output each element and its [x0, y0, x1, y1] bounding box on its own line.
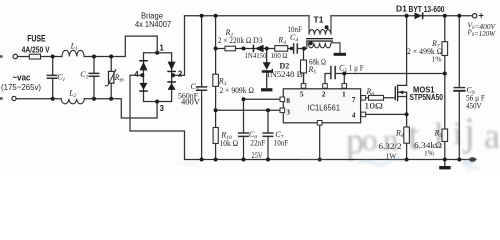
svg-text:2: 2	[178, 70, 183, 79]
capacitor C2	[89, 57, 98, 99]
wire: pin 7 gate row	[366, 97, 396, 99]
svg-text:C2: C2	[80, 70, 88, 81]
pin squares of U1	[280, 84, 366, 126]
resistor R6	[369, 95, 384, 100]
svg-text:j: j	[462, 109, 475, 154]
svg-text:C4: C4	[290, 33, 298, 44]
svg-text:R5: R5	[308, 65, 317, 76]
feedback branch R7/R9	[444, 16, 446, 160]
svg-text:1 μ F: 1 μ F	[349, 64, 364, 73]
transformer T1 primary winding	[309, 16, 331, 35]
terminal: +Vo output	[472, 14, 476, 18]
terminal: AC live input	[13, 54, 17, 58]
watermark	[176, 109, 500, 170]
wire: ground rail	[185, 159, 477, 161]
resistor R5	[301, 60, 307, 73]
wire: bridge node 4 to ground rail	[130, 75, 185, 159]
svg-text:4: 4	[352, 110, 356, 119]
svg-text:2 × 220k Ω: 2 × 220k Ω	[218, 36, 252, 45]
phase dot T1 secondary	[309, 41, 313, 45]
svg-text:n: n	[383, 122, 399, 157]
transformer T1 secondary winding	[304, 43, 340, 53]
wire: pin 3 row to R10/C7	[216, 110, 280, 133]
svg-text:2 × 909k Ω: 2 × 909k Ω	[220, 86, 255, 95]
rail end blob	[469, 157, 476, 162]
fuse FUSE 4A/250V	[29, 54, 40, 59]
zener diode D2 1N5248B	[262, 49, 273, 89]
resistor R9	[442, 129, 448, 142]
varistor Rth	[105, 57, 116, 99]
svg-text:C5: C5	[339, 64, 347, 75]
svg-text:1: 1	[342, 90, 346, 99]
wire: AC bottom line from terminal to bridge node 3	[16, 99, 157, 118]
svg-text:25V: 25V	[252, 151, 263, 160]
wire: pin 2 / pin 1 compensation row	[304, 73, 445, 84]
svg-text:Rth: Rth	[114, 73, 124, 84]
svg-text:P0=120W: P0=120W	[467, 28, 496, 39]
svg-text:4: 4	[134, 70, 139, 79]
svg-text:7: 7	[352, 95, 356, 104]
capacitor C7	[263, 133, 273, 160]
svg-text:D3: D3	[253, 36, 263, 45]
svg-text:t: t	[408, 113, 419, 158]
svg-text:5: 5	[300, 90, 304, 99]
svg-text:l: l	[434, 117, 443, 154]
capacitor C5	[331, 67, 335, 79]
svg-text:4A/250 V: 4A/250 V	[22, 44, 50, 54]
svg-text:L2: L2	[68, 88, 76, 99]
wire: pin 8 row to C6	[244, 99, 281, 133]
ground (T1 secondary)	[334, 53, 346, 56]
wire stubs at left image edge	[0, 55, 3, 100]
bridge rectifier Briage 4x1N4007	[139, 53, 176, 102]
svg-text:10k Ω: 10k Ω	[220, 139, 239, 148]
capacitor C6	[239, 133, 249, 160]
svg-text:1%: 1%	[424, 148, 434, 157]
transistor MOS1 STP5NA50	[395, 85, 406, 100]
IC U1 L6561 box	[283, 89, 360, 123]
svg-text:IC1L6561: IC1L6561	[308, 103, 341, 113]
svg-text:+: +	[479, 11, 484, 21]
diode D1 BYT13-600	[415, 12, 424, 19]
svg-text:1N4150: 1N4150	[245, 51, 267, 60]
svg-text:2: 2	[322, 90, 326, 99]
svg-text:C1: C1	[57, 73, 65, 84]
svg-text:8: 8	[286, 96, 290, 105]
capacitor C1	[47, 57, 56, 99]
svg-text:(175~265v): (175~265v)	[1, 82, 41, 92]
phase dot T1 primary	[325, 25, 329, 29]
svg-text:1: 1	[159, 44, 164, 53]
svg-text:T1: T1	[314, 15, 324, 25]
svg-text:~vac: ~vac	[13, 73, 31, 83]
wire: DC top rail	[185, 15, 473, 17]
wire: bridge node 2 to DC top rail	[172, 16, 185, 75]
wire: AC top line from fuse to bridge node 1	[18, 36, 158, 56]
wire: multiplier row (R2 D3 R4 C4)	[216, 48, 304, 50]
svg-text:i: i	[453, 116, 462, 152]
svg-text:100 Ω: 100 Ω	[271, 51, 288, 60]
svg-text:FUSE: FUSE	[27, 33, 46, 43]
svg-text:1N5248 B: 1N5248 B	[266, 70, 303, 79]
svg-text:a: a	[484, 116, 500, 156]
inductor L1	[62, 50, 84, 56]
terminal: AC neutral input	[12, 96, 16, 100]
svg-text:3: 3	[286, 107, 290, 116]
transformer T1 core	[306, 38, 333, 42]
svg-text:STP5NA50: STP5NA50	[410, 92, 444, 102]
svg-text:o: o	[362, 122, 378, 157]
resistor divider branch R3/R10	[215, 16, 217, 160]
capacitor C4	[294, 44, 298, 53]
svg-text:1%: 1%	[432, 55, 442, 64]
svg-text:D1: D1	[396, 4, 407, 14]
resistor R3	[213, 74, 219, 86]
inductor L2	[61, 99, 84, 104]
wire: pin 4 row	[366, 113, 407, 115]
wire: MOS1 drain to DC rail	[406, 16, 408, 86]
resistor R5 branch to pin 5	[303, 49, 305, 84]
svg-text:R6: R6	[366, 87, 375, 98]
svg-text:D2: D2	[280, 61, 290, 70]
svg-text:L1: L1	[70, 42, 78, 53]
svg-text:R4: R4	[277, 36, 286, 47]
resistor R4	[275, 46, 288, 52]
ground (sense divider)	[439, 160, 450, 170]
svg-text:10nF: 10nF	[274, 139, 289, 148]
svg-text:22nF: 22nF	[250, 139, 265, 148]
resistor R2	[225, 46, 236, 51]
wire: pin 6 to ground	[319, 125, 321, 159]
svg-text:BYT 13-600: BYT 13-600	[409, 4, 445, 14]
resistor R8	[404, 127, 410, 143]
wire: MOS1 source to R8 and ground	[406, 92, 408, 159]
svg-text:400V: 400V	[181, 98, 200, 107]
diode D3 1N4150	[253, 45, 264, 53]
capacitor C9 output electrolytic	[454, 16, 464, 160]
svg-text:4x 1N4007: 4x 1N4007	[135, 19, 171, 29]
resistor R7	[442, 42, 448, 56]
svg-text:10Ω: 10Ω	[364, 100, 383, 110]
capacitor C3 branch	[197, 16, 207, 160]
resistor R10	[213, 128, 218, 144]
svg-text:3: 3	[160, 104, 165, 113]
ground (D2)	[261, 88, 272, 91]
